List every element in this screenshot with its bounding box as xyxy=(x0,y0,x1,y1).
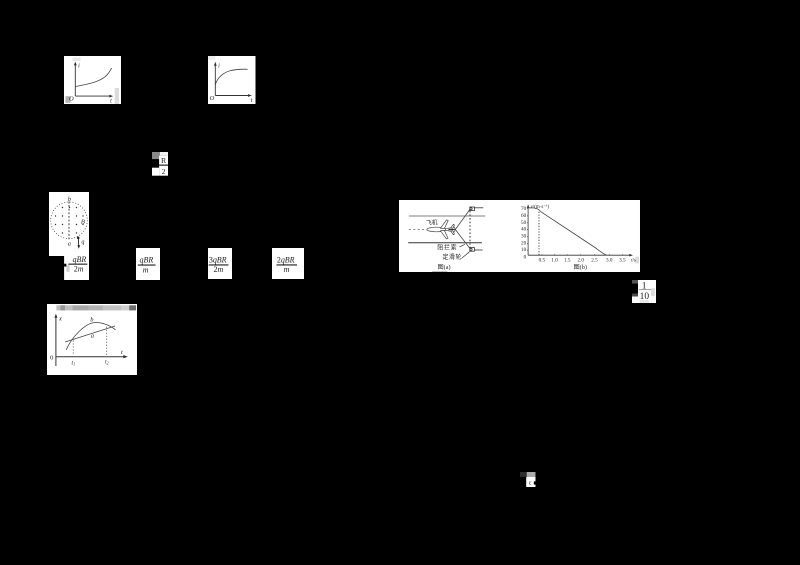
svg-text:60: 60 xyxy=(521,212,527,218)
svg-text:B: B xyxy=(80,219,84,226)
white box denominator xyxy=(159,166,168,176)
svg-text:40: 40 xyxy=(521,226,527,232)
svg-text:v/(m·s⁻¹): v/(m·s⁻¹) xyxy=(531,204,550,210)
arresting cable lower xyxy=(455,229,470,248)
light gray artifact right xyxy=(651,288,655,296)
svg-text:0.5: 0.5 xyxy=(539,257,546,263)
dotted circle boundary B region xyxy=(50,202,87,239)
white strip top xyxy=(160,152,168,156)
svg-text:2.5: 2.5 xyxy=(591,257,598,263)
x-axis xyxy=(75,94,113,97)
fraction bar xyxy=(138,264,156,265)
runway top line xyxy=(409,214,485,216)
svg-text:O: O xyxy=(210,94,215,101)
dark gray box xyxy=(520,472,527,477)
svg-text:m: m xyxy=(284,265,290,274)
x-axis xyxy=(56,354,128,357)
svg-text:3qBR: 3qBR xyxy=(209,255,227,264)
gray highlight band xyxy=(56,305,136,310)
svg-text:50: 50 xyxy=(521,219,527,225)
svg-text:飞机: 飞机 xyxy=(426,218,438,226)
light gray artifact bottom xyxy=(640,300,649,304)
airplane xyxy=(427,219,455,238)
white box bottom-left xyxy=(152,168,159,176)
svg-text:q: q xyxy=(81,240,84,246)
svg-text:30: 30 xyxy=(521,233,527,239)
svg-text:2.0: 2.0 xyxy=(577,257,584,263)
dashed vertical between pulleys xyxy=(469,210,471,247)
fraction bar xyxy=(159,164,168,165)
big figure: airplane arresting cable (a) and v-t graph (b) xyxy=(399,200,640,272)
y-axis xyxy=(74,61,77,96)
small glyph cluster xyxy=(520,472,536,487)
fraction 1/10 cluster xyxy=(632,280,656,304)
y-axis xyxy=(54,313,57,365)
svg-text:阻拦索: 阻拦索 xyxy=(437,243,457,251)
svg-text:a: a xyxy=(67,242,70,248)
svg-text:2: 2 xyxy=(162,167,166,176)
curve i(t) saturating xyxy=(215,69,247,85)
runway bottom line xyxy=(408,241,482,243)
pulley top xyxy=(470,206,483,210)
dark gray artifact top-left xyxy=(632,280,638,283)
svg-text:2m: 2m xyxy=(213,265,223,274)
fraction bar xyxy=(277,264,297,265)
x tick marks xyxy=(542,253,622,256)
deceleration curve xyxy=(528,207,606,254)
svg-text:1.5: 1.5 xyxy=(564,257,571,263)
gray artifact bottom-left xyxy=(65,96,70,103)
pulley bottom xyxy=(470,247,483,251)
curve i(t) convex rising xyxy=(75,67,111,86)
fraction C: 3qBR/2m xyxy=(208,248,232,280)
fraction B: qBR/m xyxy=(136,248,160,280)
svg-text:ε: ε xyxy=(529,480,532,487)
y tick marks xyxy=(527,208,528,249)
line a xyxy=(65,325,115,341)
dark gray artifact below blob xyxy=(632,293,638,296)
svg-text:b: b xyxy=(67,197,70,203)
x-t graph of two objects a and b xyxy=(47,304,137,375)
gray artifact right xyxy=(115,88,120,104)
svg-text:O: O xyxy=(69,95,74,102)
svg-text:0: 0 xyxy=(50,354,53,361)
velocity arrow of q xyxy=(77,239,80,249)
svg-text:图(b): 图(b) xyxy=(573,263,586,270)
svg-text:a: a xyxy=(91,332,94,339)
white box with glyph xyxy=(526,477,535,487)
white box numerator xyxy=(159,155,168,164)
field dots xyxy=(54,207,83,234)
pointer line zulansuo xyxy=(459,244,464,247)
curve b xyxy=(66,322,115,349)
svg-text:0: 0 xyxy=(524,254,527,260)
svg-text:t1: t1 xyxy=(71,360,75,366)
svg-text:2qBR: 2qBR xyxy=(277,255,295,264)
dotted vertical t1 xyxy=(72,340,74,355)
svg-text:70: 70 xyxy=(521,205,527,211)
gray square xyxy=(152,152,160,159)
fraction D: 2qBR/m xyxy=(272,248,304,280)
svg-text:qBR: qBR xyxy=(140,255,154,264)
svg-text:qBR: qBR xyxy=(72,255,86,264)
v-t graph x-axis xyxy=(528,253,633,256)
black blob xyxy=(632,283,638,293)
y-axis xyxy=(214,61,217,95)
vertical dashed diameter ab xyxy=(68,202,70,240)
gray artifact top xyxy=(73,57,81,61)
svg-text:10: 10 xyxy=(640,292,650,302)
pointer line dinghualun xyxy=(461,251,469,258)
svg-text:1.0: 1.0 xyxy=(551,257,558,263)
charge q dot xyxy=(76,237,79,240)
y tick labels xyxy=(521,205,527,260)
center dashed line xyxy=(409,228,456,230)
svg-text:10: 10 xyxy=(521,247,527,253)
fraction bar xyxy=(639,288,651,291)
gray artifact xyxy=(66,265,69,272)
v-t graph y-axis xyxy=(527,204,530,255)
svg-text:定滑轮: 定滑轮 xyxy=(442,253,461,261)
black notch artifact xyxy=(64,264,66,267)
x tick labels xyxy=(539,257,626,263)
svg-text:3.5: 3.5 xyxy=(619,257,626,263)
circle field diagram + fraction qBR/2m xyxy=(49,192,89,280)
svg-text:t: t xyxy=(121,349,123,356)
dashed vertical at 0.4s xyxy=(538,211,540,254)
black notch xyxy=(534,481,536,484)
svg-text:3.0: 3.0 xyxy=(606,257,613,263)
dotted vertical t2 xyxy=(105,326,107,355)
fraction A bar xyxy=(68,264,87,265)
svg-text:20: 20 xyxy=(521,240,527,246)
svg-text:m: m xyxy=(143,265,149,274)
gray artifact top-left xyxy=(208,56,215,60)
figure box A2: i-t graph (saturating) xyxy=(208,56,256,104)
figure box A1: i-t graph (convex rising) xyxy=(64,56,121,104)
svg-text:R: R xyxy=(161,156,167,165)
gray artifact right edge xyxy=(635,256,639,263)
svg-text:2m: 2m xyxy=(73,265,83,274)
svg-text:x: x xyxy=(58,315,62,322)
svg-text:t2: t2 xyxy=(105,359,109,365)
light gray box xyxy=(527,472,536,477)
fraction R/2 cluster xyxy=(152,152,168,176)
fraction bar xyxy=(208,264,228,265)
x-axis xyxy=(215,94,252,97)
svg-text:图(a): 图(a) xyxy=(437,263,450,270)
arresting cable upper xyxy=(455,208,470,229)
svg-text:t/s: t/s xyxy=(631,258,636,263)
gray streak artifact bottom xyxy=(432,271,447,272)
